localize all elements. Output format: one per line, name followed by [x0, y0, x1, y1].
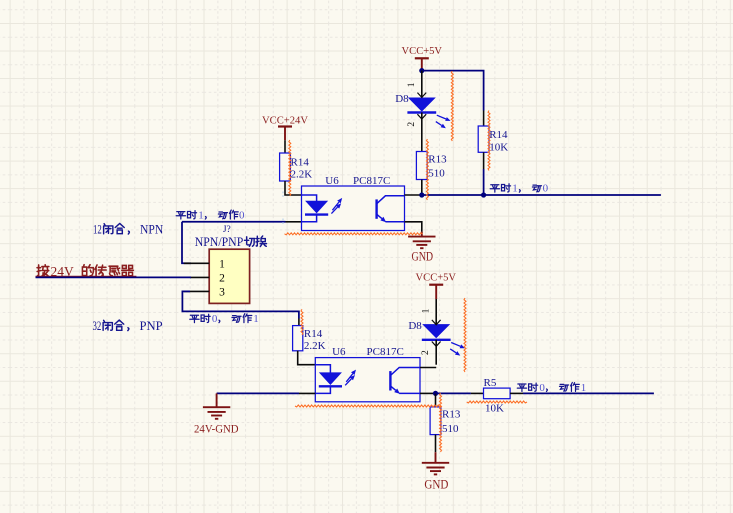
net label 平时1，动0: [490, 183, 548, 195]
compile-error squiggle (D8 top): [451, 71, 453, 141]
wire VCC+24V to R14: [284, 140, 286, 153]
resistor R14 2.2K: [280, 153, 313, 181]
svg-text:D8: D8: [395, 93, 409, 105]
svg-text:10K: 10K: [489, 141, 508, 153]
wire U6 collector to node: [405, 194, 422, 196]
compile-error squiggle (U6 top bottom): [285, 233, 423, 235]
net label 12闭合，NPN: [93, 223, 163, 237]
svg-text:0: 0: [543, 183, 549, 195]
svg-text:32: 32: [93, 319, 102, 333]
diode D8 (top LED): [395, 71, 450, 152]
wire node to R13 (bottom): [435, 393, 437, 407]
wire snap marks: [282, 192, 284, 226]
svg-text:GND: GND: [412, 250, 434, 264]
svg-text:0: 0: [539, 382, 545, 394]
net label 平时0，动作1 (left): [190, 313, 259, 325]
junction node (collector): [419, 192, 424, 197]
svg-text:3: 3: [219, 287, 225, 299]
svg-text:R14: R14: [489, 129, 508, 141]
pin 2 of J?: [190, 276, 209, 278]
svg-text:R14: R14: [304, 328, 323, 340]
wire label to J1 pin1: [182, 222, 191, 263]
compile-error squiggle (R13 bottom): [440, 393, 442, 452]
resistor R13 510 (top): [416, 152, 447, 180]
compile-error squiggle (R13 top): [426, 139, 428, 200]
svg-text:1: 1: [581, 382, 587, 394]
wire 平时1，动作0: [182, 221, 302, 223]
wire 平时1，动0 output: [422, 194, 661, 196]
diode D8 (bottom LED): [408, 299, 465, 365]
svg-text:2.2K: 2.2K: [304, 340, 326, 352]
svg-text:R14: R14: [291, 156, 310, 168]
designator J?: [223, 225, 231, 235]
wire U6 emitter to GND: [405, 222, 422, 237]
svg-text:R5: R5: [484, 377, 497, 389]
compile-error squiggle (D8 bottom): [464, 298, 466, 372]
svg-text:VCC+5V: VCC+5V: [402, 45, 443, 57]
resistor R5 10K: [484, 377, 511, 415]
wire R13 to GND (bottom): [435, 435, 437, 463]
svg-text:NPN/PNP: NPN/PNP: [195, 235, 244, 249]
svg-text:1: 1: [421, 308, 431, 313]
net label 平时0，动作1 (right): [517, 382, 586, 394]
svg-text:2: 2: [219, 273, 225, 285]
wire 24V-GND to U6 pin2: [217, 392, 316, 394]
svg-text:PC817C: PC817C: [353, 175, 390, 187]
ground 24V-GND: [194, 393, 239, 435]
label NPN/PNP切换: [195, 235, 267, 249]
net label 平时1，动作0: [176, 210, 245, 222]
svg-text:U6: U6: [325, 175, 339, 187]
svg-text:1: 1: [407, 82, 417, 87]
junction node VCC+5V: [419, 68, 424, 73]
wire U6 collector to D8 (bottom): [420, 367, 436, 369]
svg-text:J?: J?: [223, 225, 231, 235]
wire R13 to node: [421, 180, 423, 196]
svg-text:0: 0: [212, 313, 218, 325]
svg-text:PNP: PNP: [140, 319, 163, 333]
junction node (emitter bottom): [433, 391, 438, 396]
wire R14 10K to node: [483, 152, 485, 195]
wire R14 to U6 pin1: [285, 181, 302, 195]
ground GND (bottom): [422, 463, 449, 492]
svg-text:VCC+24V: VCC+24V: [262, 114, 308, 126]
optocoupler U6 PC817C (bottom): [315, 346, 420, 402]
resistor R14 2.2K (bottom): [293, 326, 326, 352]
svg-text:U6: U6: [332, 346, 346, 358]
compile-error squiggle (R14 10K): [488, 111, 490, 171]
svg-text:10K: 10K: [485, 402, 504, 414]
svg-text:2.2K: 2.2K: [291, 168, 313, 180]
wire J? pin3 to R14 (bottom): [182, 291, 299, 325]
svg-text:2: 2: [407, 122, 417, 127]
wire U6 emitter to node (bottom): [420, 392, 436, 394]
wire R14 to U6 pin1 (bottom): [298, 351, 316, 365]
svg-text:NPN: NPN: [140, 223, 163, 237]
svg-text:VCC+5V: VCC+5V: [416, 271, 457, 283]
svg-text:12: 12: [93, 223, 102, 237]
svg-text:PC817C: PC817C: [367, 346, 404, 358]
pin 1 of J?: [184, 262, 209, 264]
svg-text:R13: R13: [442, 408, 461, 420]
svg-text:1: 1: [512, 183, 518, 195]
ground GND (top): [408, 237, 435, 264]
svg-text:510: 510: [442, 423, 459, 435]
resistor R14 10K: [478, 126, 508, 153]
svg-text:D8: D8: [408, 320, 422, 332]
svg-text:GND: GND: [424, 478, 448, 492]
compile-error squiggle (R14 2.2K top): [289, 140, 291, 196]
power VCC+5V (top): [402, 45, 443, 71]
junction node (R14 10K): [481, 192, 486, 197]
svg-text:1: 1: [198, 210, 204, 222]
compile-error squiggle (R5): [467, 401, 527, 403]
svg-text:2: 2: [421, 350, 431, 355]
connector J?: [209, 249, 249, 303]
compile-error squiggle (wire to R14 bottom): [301, 309, 303, 335]
compile-error squiggle (U6 bottom): [295, 405, 442, 407]
net label 32闭合，PNP: [93, 319, 163, 333]
resistor R13 510 (bottom): [430, 407, 461, 435]
power VCC+5V (bottom): [416, 271, 457, 299]
pin 3 of J?: [184, 290, 209, 292]
wire node to R5: [436, 392, 484, 394]
svg-text:24V-GND: 24V-GND: [194, 422, 239, 436]
svg-text:510: 510: [428, 168, 445, 180]
svg-text:0: 0: [239, 210, 245, 222]
net label 接24V 的传感器: [36, 265, 137, 280]
svg-text:R13: R13: [428, 154, 447, 166]
power VCC+24V: [262, 114, 308, 140]
svg-text:1: 1: [219, 259, 225, 271]
wire VCC+5V node to R14 10K: [422, 71, 484, 126]
svg-text:1: 1: [253, 313, 259, 325]
optocoupler U6 PC817C (top): [302, 175, 405, 230]
wire R5 output 平时0，动作1: [510, 392, 654, 394]
wire sensor input: [36, 276, 192, 278]
